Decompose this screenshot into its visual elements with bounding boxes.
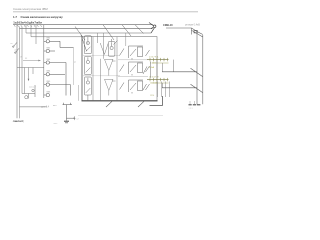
cabinet left edge: [81, 37, 83, 101]
switch QS1 blade: [191, 68, 203, 76]
feeder connector blob: [194, 30, 197, 33]
switch QS1 wire: [162, 71, 197, 73]
contactor B2: [105, 59, 116, 75]
wire vertical V7 coil rail: [43, 25, 45, 98]
header rule: [13, 11, 198, 13]
svg-text:12 14: 12 14: [150, 95, 154, 97]
row wires to strips: [118, 60, 148, 77]
relay block C2: [129, 62, 144, 76]
contactor B3: [105, 79, 116, 95]
svg-text:КМ6: КМ6: [47, 91, 51, 93]
switch QS2 blade: [191, 84, 203, 92]
cable entry slashes under box: [106, 101, 144, 107]
svg-text:Схема электрическая 3ВМ: Схема электрическая 3ВМ: [13, 7, 48, 11]
coil KM3: [44, 61, 66, 96]
contact slashes near C: [120, 49, 150, 91]
wire drop with arrow A: [28, 68, 30, 80]
feeder vertical F2: [202, 35, 204, 104]
wire vertical V6: [35, 25, 37, 44]
terminal strip XT1 bus line: [13, 24, 153, 26]
L corner bottom: [150, 96, 163, 105]
svg-text:отк: отк: [15, 50, 18, 52]
svg-text:1а2б3в4г5д6е7ж8и: 1а2б3в4г5д6е7ж8и: [13, 21, 42, 25]
svg-text:кн: кн: [11, 43, 13, 45]
mechanical link arrow: [23, 60, 39, 62]
wire vertical V2: [19, 27, 21, 119]
contact SA2: [15, 48, 19, 53]
wire drop B: [32, 68, 34, 75]
slashes left of strips: [143, 67, 147, 91]
cabinet bottom edge dark: [82, 100, 158, 102]
loop box bottom-left: [22, 85, 35, 99]
feed wire into C column: [125, 33, 127, 46]
svg-text:волна 2: волна 2: [29, 87, 36, 89]
terminal feet bottom right: [189, 104, 201, 106]
wire vertical V5: [30, 25, 32, 37]
module A2: [84, 57, 91, 75]
module A1: [84, 36, 91, 54]
terminal strip XT2: [147, 57, 169, 65]
cabinet box: [82, 37, 157, 101]
wire H y106.9: [20, 106, 48, 108]
inter-strip wires: [151, 62, 158, 78]
svg-text:1.7: 1.7: [13, 15, 17, 19]
svg-text:1 3 5 7 9 11: 1 3 5 7 9 11: [149, 57, 158, 59]
wire vertical V1: [16, 25, 18, 119]
svg-text:т3: т3: [20, 57, 22, 59]
component T1 tee: [63, 103, 75, 121]
svg-text:КМ5: КМ5: [47, 81, 51, 83]
coil KM4: [44, 73, 65, 76]
svg-text:0,4кВ: 0,4кВ: [149, 67, 155, 69]
svg-text:СМВ-10: СМВ-10: [163, 23, 173, 27]
svg-text:для 0,4: для 0,4: [41, 106, 50, 109]
shelf lines in cabinet: [82, 55, 120, 76]
coil KM5: [44, 83, 71, 96]
wire bus L4: [31, 36, 82, 38]
wire bus L3: [26, 32, 151, 34]
strip XT3 drop wires: [158, 82, 170, 98]
relay block C1: [129, 46, 144, 60]
module B1: [108, 39, 117, 56]
svg-text:SF: SF: [25, 58, 27, 60]
faint frame line bottom: [78, 115, 163, 117]
svg-text:КМ1: КМ1: [47, 38, 51, 40]
svg-text:резерв 0,4кВ: резерв 0,4кВ: [185, 24, 200, 27]
terminal strip XT3: [147, 77, 169, 85]
wire vertical V4: [25, 25, 27, 33]
relay block C3: [129, 80, 144, 94]
coil KM2: [44, 49, 55, 52]
contact SA1: [13, 42, 17, 47]
switch QS2 wire: [162, 87, 197, 89]
svg-text:КМ2: КМ2: [47, 47, 51, 49]
coil KM6: [44, 93, 50, 96]
feeder wire top: [166, 28, 203, 37]
svg-text:Схема включения на нагрузку: Схема включения на нагрузку: [21, 15, 64, 19]
svg-text:КМ3: КМ3: [47, 59, 51, 61]
svg-text:1 2 3: 1 2 3: [189, 108, 193, 110]
riser to QS1: [173, 60, 175, 72]
wire drop C: [24, 68, 26, 94]
svg-text:КМ4: КМ4: [47, 71, 51, 73]
feeder vertical F1: [196, 32, 198, 105]
svg-text:лшлшт;: лшлшт;: [13, 119, 24, 123]
in-box wires: [93, 33, 117, 101]
coil KM1: [44, 40, 74, 48]
wire H y67.5: [17, 67, 44, 69]
bus end connector: [149, 23, 156, 34]
feet drop ticks: [190, 101, 194, 105]
module A3: [84, 77, 91, 101]
cable to box: [78, 85, 80, 101]
svg-text:р1: р1: [74, 62, 76, 64]
svg-text:тест: тест: [54, 123, 58, 125]
wire bus L2: [20, 28, 153, 30]
wire riser mid: [73, 48, 75, 86]
terminal ticks: [14, 25, 42, 27]
bundle slash marks: [75, 25, 144, 51]
wire vertical V3: [21, 27, 23, 94]
